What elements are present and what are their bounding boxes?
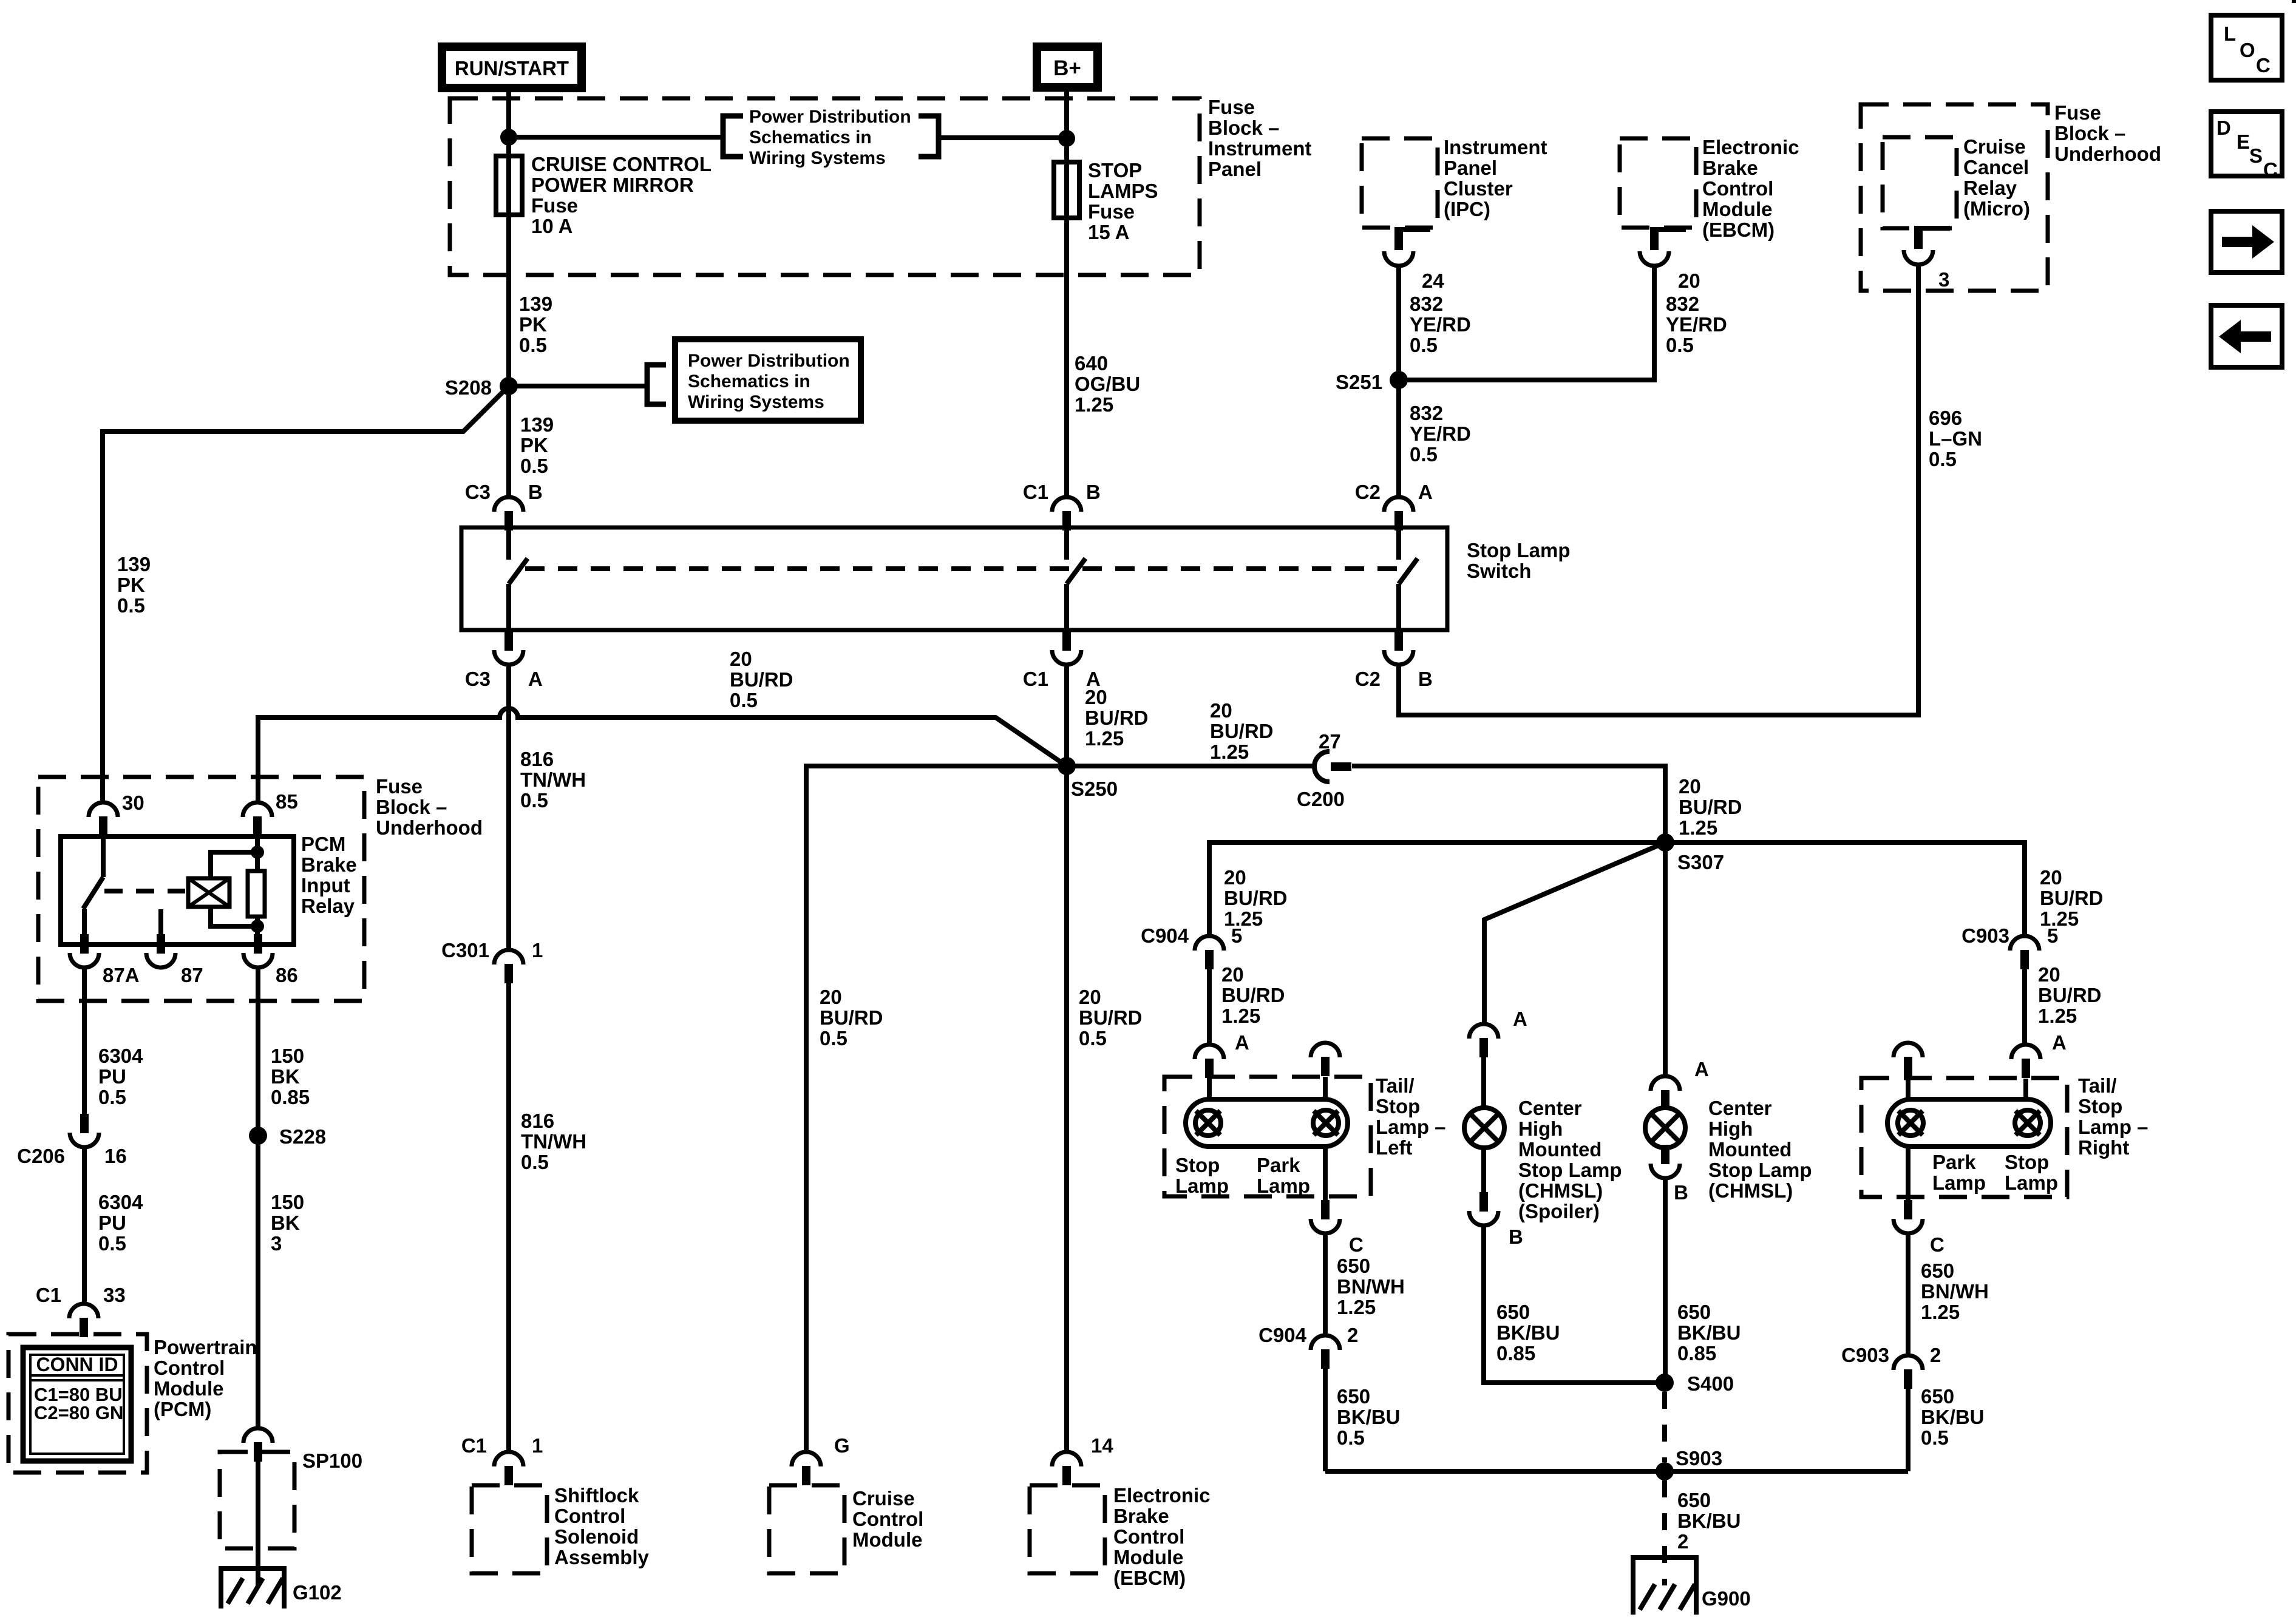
PCM brake input relay name <box>301 833 357 917</box>
wire 816 TN/WH C301 to shiftlock <box>506 983 511 1452</box>
svg-text:PK: PK <box>520 434 548 456</box>
svg-text:1.25: 1.25 <box>1221 1005 1260 1027</box>
CONN ID table <box>23 1347 131 1461</box>
svg-text:BK/BU: BK/BU <box>1677 1321 1741 1344</box>
svg-text:SP100: SP100 <box>302 1449 362 1472</box>
svg-text:2: 2 <box>1930 1344 1941 1366</box>
svg-text:C3: C3 <box>465 668 491 690</box>
svg-text:20: 20 <box>1678 269 1700 292</box>
wire label 650 BK/BU 0.85 (CHMSL) <box>1677 1301 1741 1364</box>
svg-text:S: S <box>2249 144 2263 167</box>
wire label 650 BK/BU 0.5 (right) <box>1921 1385 1985 1449</box>
svg-text:High: High <box>1708 1117 1753 1140</box>
switch fixed contact wire at x=2304 <box>1396 527 1401 560</box>
relay coil symbol <box>188 878 229 907</box>
svg-text:BU/RD: BU/RD <box>730 668 793 691</box>
svg-text:0.5: 0.5 <box>1410 443 1438 466</box>
svg-text:Mounted: Mounted <box>1708 1138 1792 1161</box>
switch blade at x=838 <box>509 558 528 584</box>
right stop lamp label <box>2005 1151 2058 1194</box>
svg-text:G: G <box>834 1434 850 1457</box>
splice S400 name <box>1687 1372 1734 1395</box>
wire label 640 OG/BU 1.25 <box>1075 352 1140 416</box>
svg-text:BK/BU: BK/BU <box>1337 1406 1401 1428</box>
ground G102 <box>219 1568 342 1609</box>
svg-text:14: 14 <box>1091 1434 1113 1457</box>
svg-text:(EBCM): (EBCM) <box>1113 1567 1186 1589</box>
connector C2 A (switch top at x=2304) <box>1384 497 1413 531</box>
connector CHMSL pin B <box>1651 1145 1680 1178</box>
svg-text:High: High <box>1518 1117 1563 1140</box>
connector C903-2 labels <box>1841 1344 1941 1366</box>
svg-text:Block –: Block – <box>376 796 447 818</box>
wire S307 right to right tail lamp <box>1665 842 2025 936</box>
shiftlock name <box>554 1484 650 1568</box>
relay coil top branch <box>211 852 257 878</box>
svg-text:6304: 6304 <box>98 1045 143 1067</box>
splice pack SP100 name <box>302 1449 362 1472</box>
svg-text:816: 816 <box>520 748 554 770</box>
svg-text:B: B <box>1086 481 1101 503</box>
svg-text:A: A <box>1694 1058 1709 1080</box>
svg-text:Power Distribution: Power Distribution <box>688 351 850 371</box>
connector C903 pin 2 <box>1894 1355 1923 1389</box>
connector C1-33 labels <box>36 1284 126 1306</box>
switch lower contact wire at x=1757 <box>1064 584 1069 631</box>
svg-text:BU/RD: BU/RD <box>1210 720 1274 742</box>
connector C206 pin 16 <box>70 1114 99 1147</box>
power feed box B+ <box>1037 47 1098 87</box>
svg-text:0.5: 0.5 <box>98 1086 126 1108</box>
connector C904 pin 2 <box>1311 1335 1340 1369</box>
svg-text:87: 87 <box>181 964 203 986</box>
fuse block underhood name (left) <box>376 775 483 839</box>
switch blade at x=2304 <box>1399 558 1418 584</box>
electronic brake control module dashed box (bottom) <box>1030 1485 1105 1573</box>
relay switch common wire <box>101 836 106 877</box>
svg-text:A: A <box>1235 1031 1249 1054</box>
wire label 650 BK/BU 2 <box>1677 1489 1741 1553</box>
svg-text:O: O <box>2240 39 2255 61</box>
svg-text:C: C <box>1349 1233 1364 1256</box>
relay pin 87 stub wire <box>158 909 163 944</box>
wire 150 BK 86 to SP100 <box>256 968 260 1428</box>
connector EBCM pin 20 <box>1640 227 1686 266</box>
svg-text:TN/WH: TN/WH <box>521 1130 586 1153</box>
fuse block underhood name (right) <box>2054 101 2161 165</box>
svg-text:650: 650 <box>1337 1255 1370 1277</box>
wire label 20 BU/RD 1.25 (after C200) <box>1679 775 1742 839</box>
wire C903-5 to lamp A <box>2022 969 2027 1045</box>
svg-text:A: A <box>2052 1031 2067 1054</box>
svg-text:Cruise: Cruise <box>1963 135 2026 158</box>
pin label B (CHMSL spoiler) <box>1509 1225 1523 1248</box>
connector C904-5 labels <box>1141 924 1242 947</box>
power distribution reference box (lower) <box>675 339 861 421</box>
connector relay pin 86 <box>243 934 273 968</box>
bracket (power distribution ref lower) <box>647 365 666 404</box>
connector C301 floating name <box>0 0 1 1</box>
svg-text:C1: C1 <box>1023 668 1048 690</box>
svg-text:C: C <box>2256 54 2271 76</box>
wire A into left stop bulb <box>1207 1079 1212 1099</box>
wire 640 OG/BU from B+ fuse to switch C1 B <box>1064 87 1069 497</box>
EBCM name (top) <box>1702 136 1799 241</box>
svg-text:Fuse: Fuse <box>2054 101 2101 124</box>
svg-text:Wiring Systems: Wiring Systems <box>688 392 824 412</box>
pin label 30 <box>122 792 144 814</box>
right park lamp label <box>1932 1151 1986 1194</box>
connector left lamp pin C <box>1311 1200 1340 1233</box>
wire label 832 YE/RD 0.5 (IPC) <box>1410 293 1471 356</box>
wire S250 branch to cruise control module <box>806 766 1067 1452</box>
svg-text:C903: C903 <box>1841 1344 1889 1366</box>
svg-text:Module: Module <box>154 1377 223 1400</box>
splice S903 <box>1656 1462 1674 1480</box>
wire label 832 YE/RD 0.5 (below S251) <box>1410 402 1471 466</box>
svg-text:A: A <box>528 668 543 690</box>
splice S903 name <box>1676 1447 1722 1470</box>
svg-text:BN/WH: BN/WH <box>1337 1275 1405 1298</box>
wire S208 to power distribution bracket (lower) <box>509 384 647 388</box>
splice S251 <box>1390 371 1408 389</box>
right tail lamp bulb housing <box>1887 1099 2051 1147</box>
PCM brake input relay box <box>61 836 294 944</box>
svg-text:Center: Center <box>1708 1097 1772 1119</box>
svg-text:PU: PU <box>98 1065 126 1088</box>
pin label 20 <box>1678 269 1700 292</box>
wire label 20 BU/RD 1.25 (right branch lower) <box>2038 963 2102 1027</box>
svg-text:6304: 6304 <box>98 1191 143 1213</box>
svg-text:(CHMSL): (CHMSL) <box>1518 1179 1603 1202</box>
svg-text:BU/RD: BU/RD <box>1079 1006 1143 1029</box>
svg-text:Powertrain: Powertrain <box>154 1336 257 1358</box>
svg-text:BU/RD: BU/RD <box>2040 887 2104 909</box>
svg-text:0.85: 0.85 <box>1677 1342 1716 1364</box>
connector C1 A (switch bottom at x=1757) <box>1052 631 1081 665</box>
svg-text:1.25: 1.25 <box>2040 907 2079 930</box>
fuse label STOP LAMPS <box>1088 159 1158 243</box>
svg-text:Underhood: Underhood <box>2054 143 2161 165</box>
right stop lamp bulb <box>2015 1110 2040 1136</box>
svg-text:Stop: Stop <box>1376 1095 1420 1117</box>
stop lamp switch box <box>461 527 1447 630</box>
svg-text:0.5: 0.5 <box>820 1027 847 1049</box>
svg-text:650: 650 <box>1921 1385 1954 1408</box>
svg-text:1.25: 1.25 <box>2038 1005 2077 1027</box>
svg-text:0.5: 0.5 <box>1921 1426 1949 1449</box>
connector C903-5 labels <box>1961 924 2058 947</box>
wire label 20 BU/RD 1.25 (to C200) <box>1210 699 1274 763</box>
wire S250 down to EBCM pin 14 <box>1064 766 1069 1452</box>
svg-text:S251: S251 <box>1336 371 1382 393</box>
switch linkage dashed line <box>525 566 1408 571</box>
svg-text:85: 85 <box>276 790 298 813</box>
wire 650 BK/BU spoiler to S400 <box>1484 1225 1665 1383</box>
svg-text:Stop: Stop <box>1175 1154 1220 1176</box>
splice S307 <box>1656 833 1674 852</box>
page edge mark <box>2292 0 2296 3</box>
svg-text:27: 27 <box>1319 730 1341 753</box>
wire C904-5 to lamp A <box>1207 969 1212 1045</box>
svg-text:PK: PK <box>117 574 145 596</box>
svg-text:BU/RD: BU/RD <box>1085 707 1149 729</box>
wire 650 BN/WH to C903-2 <box>1906 1233 1911 1355</box>
connector relay pin 87A <box>70 934 99 968</box>
relay switch to 87A <box>82 909 87 944</box>
legend box LOC <box>2211 15 2282 80</box>
svg-text:OG/BU: OG/BU <box>1075 373 1140 395</box>
wire left park lamp down to C <box>1323 1147 1328 1200</box>
connector cruise cancel relay pin 3 <box>1904 226 1950 265</box>
svg-text:832: 832 <box>1410 402 1443 424</box>
svg-text:Shiftlock: Shiftlock <box>554 1484 639 1507</box>
svg-text:C206: C206 <box>17 1145 65 1167</box>
svg-text:650: 650 <box>1677 1301 1711 1323</box>
switch lower contact wire at x=2304 <box>1396 584 1401 631</box>
svg-text:816: 816 <box>521 1110 554 1132</box>
svg-text:20: 20 <box>1224 866 1246 889</box>
wire C200 to S307 <box>1352 766 1665 842</box>
svg-text:Lamp: Lamp <box>1932 1171 1986 1194</box>
wire label 832 YE/RD 0.5 (EBCM) <box>1666 293 1727 356</box>
svg-text:Stop: Stop <box>2078 1095 2122 1117</box>
wire label 6304 PU 0.5 (upper) <box>98 1045 143 1108</box>
wire 139 PK from RUN/START through fuse to S208 <box>506 88 511 386</box>
wire S400 to S903 (dashed) <box>1662 1392 1667 1462</box>
connector right tail lamp pin A <box>2011 1045 2040 1078</box>
wire label 139 PK 0.5 (below S208) <box>520 413 554 477</box>
svg-text:C1: C1 <box>1023 481 1048 503</box>
svg-text:Block –: Block – <box>1208 117 1279 139</box>
wire 650 BK/BU C903-2 to S903 <box>1906 1389 1911 1471</box>
svg-text:1: 1 <box>532 1434 543 1457</box>
wire label 150 BK 3 <box>271 1191 304 1255</box>
svg-text:0.5: 0.5 <box>98 1232 126 1255</box>
connector C200 pin 27 <box>1314 751 1351 782</box>
svg-text:Module: Module <box>1702 198 1772 220</box>
svg-text:20: 20 <box>1085 686 1107 708</box>
pin label 87 <box>181 964 203 986</box>
svg-text:Panel: Panel <box>1208 158 1262 180</box>
connector C3 B (switch top at x=838) <box>494 497 523 531</box>
svg-text:Relay: Relay <box>1963 177 2017 199</box>
wire label 650 BK/BU 0.5 (left) <box>1337 1385 1401 1449</box>
svg-text:STOP: STOP <box>1088 159 1142 181</box>
wire bracket to B+ feed <box>939 135 1067 140</box>
wire S307 left to left tail lamp <box>1209 842 1665 936</box>
svg-text:0.85: 0.85 <box>271 1086 310 1108</box>
svg-text:C200: C200 <box>1297 788 1345 810</box>
connector C904 pin 5 <box>1195 936 1224 969</box>
svg-text:139: 139 <box>519 293 552 315</box>
splice S251 name <box>1336 371 1382 393</box>
connector cruise control module pin G <box>792 1452 821 1485</box>
svg-text:YE/RD: YE/RD <box>1666 313 1727 336</box>
svg-text:Mounted: Mounted <box>1518 1138 1601 1161</box>
svg-text:(IPC): (IPC) <box>1444 198 1490 220</box>
svg-text:650: 650 <box>1921 1259 1954 1282</box>
svg-text:C301: C301 <box>441 939 489 961</box>
svg-text:0.5: 0.5 <box>117 594 145 617</box>
wire S251 to switch C2 A <box>1396 380 1401 497</box>
svg-text:Schematics in: Schematics in <box>749 127 872 147</box>
pin label 3 <box>1938 268 1949 291</box>
connector C904-2 labels <box>1258 1324 1358 1346</box>
pin label 14 <box>1091 1434 1113 1457</box>
PCM name <box>154 1336 257 1420</box>
svg-text:Underhood: Underhood <box>376 816 483 839</box>
splice S250 name <box>1071 778 1118 800</box>
splice S250 <box>1058 757 1076 775</box>
wire 832 YE/RD EBCM to S251 <box>1399 265 1654 380</box>
right park lamp bulb <box>1898 1110 1923 1136</box>
connector CHMSL spoiler pin B <box>1469 1192 1498 1225</box>
svg-text:2: 2 <box>1347 1324 1358 1346</box>
pin label G <box>834 1434 850 1457</box>
wire label 139 PK 0.5 (left branch) <box>117 553 151 617</box>
svg-text:PK: PK <box>519 313 547 336</box>
wire label 650 BN/WH 1.25 (right) <box>1921 1259 1989 1323</box>
svg-text:L–GN: L–GN <box>1929 427 1982 450</box>
svg-text:150: 150 <box>271 1191 304 1213</box>
wire CHMSL bulb to B <box>1663 1145 1668 1147</box>
svg-text:Brake: Brake <box>1702 157 1758 179</box>
left stop lamp label <box>1175 1154 1229 1197</box>
svg-text:1.25: 1.25 <box>1075 393 1113 416</box>
svg-text:Schematics in: Schematics in <box>688 371 810 392</box>
wire label 20 BU/RD 1.25 (left branch lower) <box>1221 963 1285 1027</box>
wire 816 TN/WH C3 A to C301 <box>506 665 511 950</box>
svg-text:S208: S208 <box>445 376 492 399</box>
svg-text:640: 640 <box>1075 352 1108 375</box>
pin label 85 <box>276 790 298 813</box>
tail/stop lamp right dashed box <box>1861 1078 2067 1197</box>
svg-text:Power Distribution: Power Distribution <box>749 107 911 127</box>
wire label 20 BU/RD 0.5 (EBCM branch) <box>1079 986 1143 1049</box>
wire S903 bus left-right <box>1325 1469 1908 1474</box>
switch lower contact wire at x=838 <box>506 584 511 631</box>
pin labels C3 A <box>465 668 543 690</box>
wire 650 BK/BU C904-2 to S903 <box>1323 1369 1328 1471</box>
connector CHMSL pin A <box>1651 1076 1680 1110</box>
svg-text:0.5: 0.5 <box>1929 448 1957 470</box>
connector right park lamp (unused top) <box>1894 1043 1923 1076</box>
svg-text:650: 650 <box>1337 1385 1370 1408</box>
svg-text:30: 30 <box>122 792 144 814</box>
wire to power distribution bracket (top) <box>509 135 722 140</box>
connector relay pin 85 <box>243 802 272 836</box>
power feed box RUN/START <box>442 47 582 88</box>
svg-text:YE/RD: YE/RD <box>1410 313 1471 336</box>
pin label A (CHMSL) <box>1694 1058 1709 1080</box>
svg-text:B: B <box>1674 1181 1688 1204</box>
svg-text:RUN/START: RUN/START <box>455 57 569 80</box>
svg-text:BN/WH: BN/WH <box>1921 1280 1989 1303</box>
svg-text:Brake: Brake <box>301 853 357 876</box>
pin labels C3 B <box>465 481 543 503</box>
wire 650 BK/BU CHMSL to S400 <box>1663 1178 1668 1383</box>
svg-text:S250: S250 <box>1071 778 1118 800</box>
pin label 24 <box>1422 269 1444 292</box>
wire 6304 PU 87A to C206 <box>82 968 87 1114</box>
svg-text:B+: B+ <box>1053 56 1081 80</box>
tail/stop lamp left dashed box <box>1164 1077 1371 1196</box>
svg-text:BU/RD: BU/RD <box>1679 796 1742 818</box>
connector relay pin 87 <box>146 934 175 968</box>
svg-text:PU: PU <box>98 1212 126 1234</box>
stop lamp switch name <box>1467 539 1571 582</box>
pin labels C1 A <box>1023 668 1101 690</box>
svg-text:Stop Lamp: Stop Lamp <box>1467 539 1571 561</box>
svg-text:TN/WH: TN/WH <box>520 768 586 791</box>
connector shiftlock labels <box>461 1434 543 1457</box>
svg-text:20: 20 <box>2040 866 2062 889</box>
svg-text:C1: C1 <box>461 1434 487 1457</box>
svg-text:POWER MIRROR: POWER MIRROR <box>531 174 694 196</box>
wire 832 YE/RD IPC to S251 <box>1396 265 1401 380</box>
svg-text:BU/RD: BU/RD <box>1221 984 1285 1006</box>
CHMSL bulb <box>1645 1108 1685 1148</box>
svg-text:1.25: 1.25 <box>1921 1301 1960 1323</box>
svg-text:Lamp: Lamp <box>1257 1175 1310 1197</box>
svg-text:0.85: 0.85 <box>1496 1342 1535 1364</box>
pin labels C1 B <box>1023 481 1101 503</box>
svg-text:C1: C1 <box>36 1284 61 1306</box>
svg-text:S400: S400 <box>1687 1372 1734 1395</box>
wire S208 branch to relay pin 30 <box>103 386 509 802</box>
junction on RUN/START feed <box>500 129 517 146</box>
svg-text:D: D <box>2216 117 2231 139</box>
bracket left (power distribution ref top) <box>723 116 743 157</box>
svg-text:1.25: 1.25 <box>1210 741 1249 763</box>
svg-text:Wiring Systems: Wiring Systems <box>749 148 886 168</box>
svg-text:16: 16 <box>104 1145 127 1167</box>
svg-text:Fuse: Fuse <box>376 775 423 798</box>
svg-text:BK/BU: BK/BU <box>1677 1510 1741 1532</box>
wire right park top stub <box>1906 1077 1911 1099</box>
svg-text:Tail/: Tail/ <box>2078 1074 2117 1097</box>
svg-text:(EBCM): (EBCM) <box>1702 219 1775 241</box>
cruise control module name <box>852 1487 923 1551</box>
svg-text:0.5: 0.5 <box>1337 1426 1365 1449</box>
svg-text:0.5: 0.5 <box>1666 334 1694 356</box>
svg-text:1.25: 1.25 <box>1337 1296 1376 1318</box>
svg-text:Block –: Block – <box>2054 122 2125 144</box>
svg-text:(Micro): (Micro) <box>1963 197 2030 220</box>
svg-text:832: 832 <box>1410 293 1443 315</box>
connector C2 B (switch bottom at x=2304) <box>1384 631 1413 665</box>
wire label 650 BN/WH 1.25 (left) <box>1337 1255 1405 1318</box>
fuse block - instrument panel dashed box <box>450 98 1200 275</box>
svg-text:Fuse: Fuse <box>1208 96 1255 118</box>
svg-text:B: B <box>1509 1225 1523 1248</box>
relay pin85 internal wire <box>255 836 260 871</box>
wire S250 to C200 <box>1067 764 1314 768</box>
svg-text:C: C <box>1930 1233 1944 1256</box>
connector left tail lamp pin A <box>1195 1045 1224 1078</box>
fuse label CRUISE CONTROL POWER MIRROR <box>531 153 712 237</box>
svg-text:A: A <box>1418 481 1433 503</box>
junction on B+ feed <box>1058 130 1075 147</box>
switch blade at x=1757 <box>1067 558 1085 584</box>
relay switch blade <box>83 877 103 909</box>
svg-text:C904: C904 <box>1141 924 1189 947</box>
svg-text:139: 139 <box>117 553 151 575</box>
wire label 20 BU/RD 1.25 (right branch upper) <box>2040 866 2104 930</box>
electronic brake control module dashed box (top) <box>1620 138 1696 228</box>
svg-text:Solenoid: Solenoid <box>554 1525 639 1548</box>
